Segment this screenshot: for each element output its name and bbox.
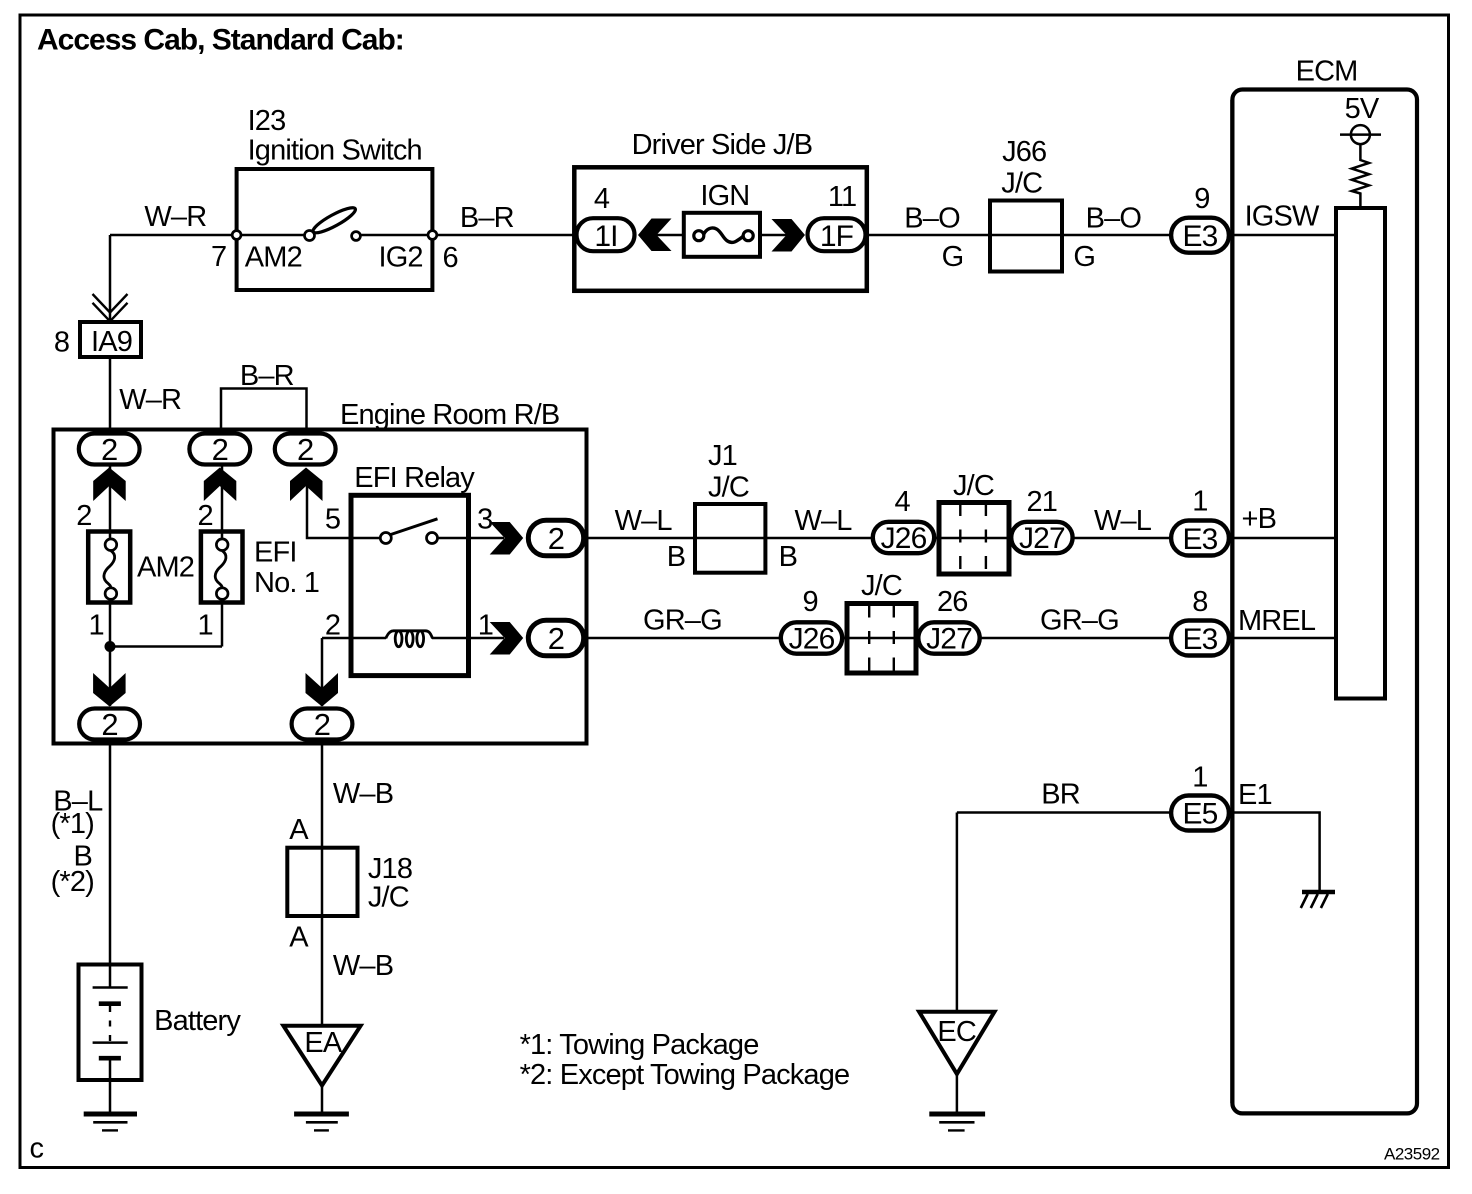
svg-text:J27: J27	[1019, 522, 1065, 555]
svg-text:AM2: AM2	[245, 242, 302, 274]
svg-text:c: c	[30, 1133, 44, 1165]
svg-text:1: 1	[89, 610, 104, 642]
svg-text:2: 2	[76, 500, 91, 532]
svg-text:4: 4	[895, 486, 911, 518]
svg-text:J1: J1	[708, 440, 737, 472]
svg-text:5: 5	[325, 504, 340, 536]
svg-text:MREL: MREL	[1238, 605, 1316, 637]
svg-text:E3: E3	[1183, 523, 1218, 556]
svg-text:J/C: J/C	[368, 882, 409, 914]
svg-text:A: A	[289, 922, 309, 954]
svg-text:E3: E3	[1183, 220, 1218, 253]
svg-text:J27: J27	[926, 623, 972, 656]
svg-text:IG2: IG2	[379, 242, 423, 274]
svg-text:1: 1	[478, 609, 493, 641]
svg-text:J18: J18	[368, 853, 412, 885]
svg-text:Driver Side J/B: Driver Side J/B	[632, 129, 813, 161]
svg-text:G: G	[942, 241, 964, 273]
svg-text:W–R: W–R	[119, 384, 181, 416]
svg-text:E1: E1	[1238, 779, 1272, 811]
svg-text:A: A	[289, 814, 309, 846]
svg-text:8: 8	[1192, 586, 1207, 618]
svg-text:J66: J66	[1002, 136, 1046, 168]
svg-text:AM2: AM2	[137, 552, 194, 584]
svg-text:2: 2	[101, 707, 117, 742]
svg-text:2: 2	[101, 432, 117, 467]
svg-text:E3: E3	[1183, 623, 1218, 656]
svg-text:EA: EA	[304, 1027, 342, 1059]
svg-text:B–O: B–O	[1086, 203, 1142, 235]
svg-text:W–R: W–R	[144, 201, 206, 233]
svg-text:2: 2	[297, 432, 313, 467]
svg-text:+B: +B	[1242, 503, 1277, 535]
svg-text:5V: 5V	[1345, 93, 1380, 125]
svg-text:2: 2	[548, 621, 564, 656]
svg-text:11: 11	[828, 181, 856, 213]
svg-text:EFI Relay: EFI Relay	[354, 462, 475, 494]
svg-text:B–R: B–R	[240, 360, 294, 392]
svg-text:BR: BR	[1041, 779, 1080, 811]
svg-text:A23592: A23592	[1384, 1145, 1440, 1164]
svg-text:3: 3	[477, 504, 492, 536]
svg-text:W–B: W–B	[333, 778, 393, 810]
svg-text:G: G	[1073, 241, 1095, 273]
svg-text:J/C: J/C	[708, 471, 749, 503]
svg-text:E5: E5	[1183, 798, 1218, 831]
svg-text:Engine Room R/B: Engine Room R/B	[340, 399, 559, 431]
svg-text:I23: I23	[248, 105, 286, 137]
svg-text:GR–G: GR–G	[643, 605, 722, 637]
svg-text:6: 6	[443, 242, 458, 274]
svg-text:EC: EC	[937, 1016, 976, 1048]
svg-text:1I: 1I	[594, 220, 617, 253]
svg-text:(*2): (*2)	[51, 866, 94, 898]
svg-text:W–L: W–L	[615, 505, 673, 537]
svg-text:(*1): (*1)	[51, 808, 94, 840]
svg-text:J/C: J/C	[1001, 167, 1042, 199]
svg-text:IGSW: IGSW	[1245, 200, 1320, 232]
svg-text:Access Cab, Standard Cab:: Access Cab, Standard Cab:	[37, 24, 404, 57]
svg-text:IA9: IA9	[91, 326, 132, 358]
svg-text:26: 26	[937, 586, 968, 618]
svg-text:GR–G: GR–G	[1040, 605, 1119, 637]
svg-text:B: B	[667, 541, 686, 573]
svg-text:2: 2	[325, 609, 340, 641]
svg-text:EFI: EFI	[254, 536, 297, 568]
svg-text:J26: J26	[881, 522, 927, 555]
svg-text:B–R: B–R	[460, 202, 514, 234]
svg-text:Battery: Battery	[154, 1005, 241, 1037]
svg-text:21: 21	[1027, 486, 1058, 518]
svg-text:2: 2	[314, 707, 330, 742]
svg-text:B–O: B–O	[904, 203, 960, 235]
svg-text:J/C: J/C	[953, 470, 994, 502]
svg-text:J/C: J/C	[861, 570, 902, 602]
svg-text:W–L: W–L	[795, 505, 853, 537]
svg-text:4: 4	[594, 183, 610, 215]
svg-text:1: 1	[198, 610, 213, 642]
svg-text:2: 2	[548, 521, 564, 556]
svg-text:IGN: IGN	[700, 180, 749, 212]
svg-text:W–B: W–B	[333, 950, 393, 982]
svg-text:9: 9	[1194, 183, 1209, 215]
svg-text:W–L: W–L	[1094, 505, 1152, 537]
svg-text:1: 1	[1192, 762, 1207, 794]
svg-text:Ignition Switch: Ignition Switch	[248, 134, 422, 166]
svg-text:*1: Towing Package: *1: Towing Package	[520, 1029, 759, 1061]
svg-text:1: 1	[1192, 485, 1207, 517]
svg-text:J26: J26	[789, 623, 835, 656]
svg-text:7: 7	[211, 241, 226, 273]
svg-text:No. 1: No. 1	[254, 567, 319, 599]
svg-text:1F: 1F	[820, 220, 854, 253]
svg-text:ECM: ECM	[1296, 55, 1358, 87]
svg-text:2: 2	[198, 500, 213, 532]
svg-text:9: 9	[803, 586, 818, 618]
svg-text:*2: Except Towing Package: *2: Except Towing Package	[520, 1059, 850, 1091]
svg-text:8: 8	[54, 326, 69, 358]
svg-text:2: 2	[212, 432, 228, 467]
svg-text:B: B	[779, 541, 798, 573]
